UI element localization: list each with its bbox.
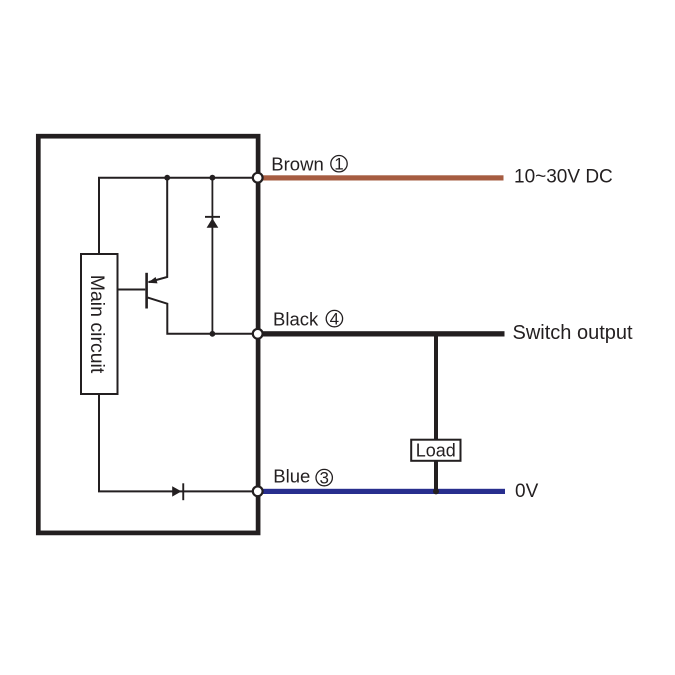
svg-text:0V: 0V [515,481,539,502]
svg-text:4: 4 [330,309,339,328]
svg-text:1: 1 [334,155,343,174]
svg-text:Blue: Blue [273,466,310,487]
svg-text:Load: Load [416,440,456,460]
svg-text:3: 3 [319,468,328,487]
svg-text:10~30V DC: 10~30V DC [514,167,613,188]
svg-text:Main circuit: Main circuit [86,275,108,374]
svg-text:Black: Black [273,309,319,330]
svg-text:Switch output: Switch output [513,322,634,344]
svg-text:Brown: Brown [271,154,323,175]
